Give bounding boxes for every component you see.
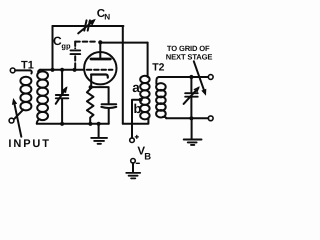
triode cathode lead [90,75,92,88]
wire T2 primary top vertical [147,43,149,77]
node grid wire dot 3 (Cgp) [73,68,77,72]
node output bottom dot [189,116,193,120]
transformer T1 primary bottom terminal [9,118,14,123]
ground right stem [191,118,193,138]
capacitor Ck top plate [102,103,117,105]
svg-text:INPUT: INPUT [8,138,51,150]
ground right bars [184,140,202,145]
node cathode dot [89,85,93,89]
wire top horizontal CN to right corner [90,25,124,27]
capacitor Cgp dashed lead vertical top [74,42,76,49]
svg-text:T1: T1 [21,60,34,72]
resistor Rk zigzag [87,89,94,124]
triode plate bar [91,58,110,61]
capacitor CN plates [84,20,90,30]
capacitor C2 plates [185,93,198,97]
node grid wire dot 2 [60,68,64,72]
battery VB plus terminal [130,138,135,143]
wire top horizontal from grid to CN [53,25,85,27]
arrow INPUT annotation [14,102,21,137]
inductor T2 secondary loops [156,77,158,84]
inductor T1 secondary loops [38,70,40,73]
node T2 tap dot [139,98,143,102]
capacitor Cgp dashed lead vertical bottom [74,56,76,68]
transformer T1 primary top terminal [10,68,15,73]
capacitor C2 branch bottom [190,98,192,119]
wire left vertical grid riser [52,26,54,70]
svg-text:a: a [132,80,140,95]
wire T1 primary top [15,69,30,71]
wire cathode to bypass cap [91,87,109,104]
terminal output bottom [208,116,213,121]
node grid wire dot 1 [50,68,54,72]
wire CN right vertical (to coil bottom b) [122,26,124,124]
wire plate horizontal to T2 [100,42,147,44]
node plate junction dot [98,40,102,44]
triode grid dashes [87,69,113,71]
capacitor Cgp dashed lead horizontal [75,41,97,43]
node bottom dot varcap [60,122,64,126]
wire output top [159,76,209,78]
svg-text:T2: T2 [152,62,164,74]
ground VB bars [126,173,140,179]
capacitor C2 arrow [184,88,199,104]
node bottom dot ground [97,122,101,126]
capacitor C1 (tank) branch top [61,70,63,94]
svg-text:NEXT STAGE: NEXT STAGE [166,52,213,61]
node bottom dot resistor [88,122,92,126]
ground VB stem [132,163,134,172]
wire coil-b bottom horizontal [123,118,149,124]
capacitor Ck bottom plate (curved) [101,107,116,108]
svg-text:b: b [134,101,142,116]
inductor T2 primary loops [140,76,149,83]
battery VB minus sign [136,162,139,164]
svg-text:gp: gp [61,42,71,51]
svg-text:N: N [104,12,110,21]
capacitor CN arrow [78,20,94,33]
wire T1 primary bottom diagonal [14,110,23,119]
capacitor C1 plates [56,95,69,98]
capacitor Cgp plates [71,50,81,54]
capacitor C1 branch bottom [61,99,63,123]
wire output bottom [166,117,208,119]
arrow output annotation [194,61,205,92]
triode plate lead [99,42,101,57]
ground left stem [98,124,100,137]
triode V1 envelope [84,52,116,84]
node output top dot [189,75,193,79]
battery VB minus terminal [131,159,136,164]
terminal output top [208,75,213,80]
capacitor C2 branch top [190,77,192,92]
wire grid horizontal [40,69,84,71]
capacitor C1 arrow [56,88,67,104]
inductor T1 primary loops [20,77,31,85]
ground left bars [91,138,107,144]
svg-text:B: B [144,151,151,162]
wire bottom bus [37,123,109,125]
triode cathode bar [91,75,108,78]
capacitor Ck bottom lead [108,108,110,123]
wire T2 tap to VB [132,100,141,138]
battery VB plus sign [135,135,138,138]
